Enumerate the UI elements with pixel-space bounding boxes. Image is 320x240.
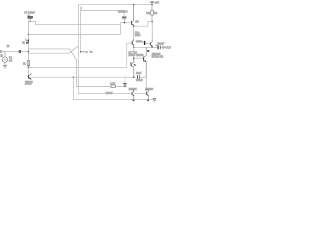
node v3 top xyxy=(73,77,74,78)
left rail xyxy=(27,21,29,74)
bottom rail corner x=78.3 to base rail y=93.7 xyxy=(78,93,131,95)
svg-text:R5: R5 xyxy=(135,20,139,23)
svg-text:1k: 1k xyxy=(23,63,26,65)
svg-text:2N3904: 2N3904 xyxy=(118,9,128,13)
svg-text:10uF: 10uF xyxy=(136,72,142,75)
node dot at C2 bottom xyxy=(124,22,126,24)
svg-text:+9V: +9V xyxy=(154,0,159,4)
capacitor C4 output xyxy=(155,42,164,49)
transistor Q8 mirror left xyxy=(129,89,138,101)
svg-text:C: C xyxy=(86,50,88,54)
wire to Q6 base xyxy=(134,57,144,59)
bus 1 vertical x=78.3 xyxy=(77,5,79,94)
resistor R2 on left rail xyxy=(23,61,30,66)
svg-text:1k: 1k xyxy=(22,42,25,44)
wire down to Q7 xyxy=(151,21,153,41)
supply +9V xyxy=(150,0,159,4)
wire mirror base rail continue xyxy=(134,93,147,95)
wire long top line y=24.6 xyxy=(35,24,120,26)
wire line y=67.3 xyxy=(28,66,126,68)
node C label xyxy=(80,50,93,54)
node line y67.3 xyxy=(28,67,30,69)
transistor Q3 NPN 2N3904 right top xyxy=(118,5,134,27)
wire mid line y=34.5 xyxy=(28,34,120,36)
svg-text:IN: IN xyxy=(7,44,10,48)
bus 2 top rail xyxy=(81,7,125,16)
diode D1 bar xyxy=(136,41,150,45)
ground rail corner v3 xyxy=(73,77,154,99)
transistor Q4 driver xyxy=(131,39,134,47)
terminal OUT xyxy=(163,46,172,50)
node on top rail xyxy=(133,4,134,5)
resistor R6 xyxy=(146,5,158,22)
transistor Q6 PNP output lower xyxy=(136,47,149,77)
svg-text:OUT: OUT xyxy=(165,46,171,50)
node A xyxy=(28,34,29,35)
wire cap to right chain xyxy=(140,76,147,78)
capacitor C2 right xyxy=(122,17,127,23)
wire output line y=47.3 to right xyxy=(134,46,152,48)
capacitor C5 series y77.2 xyxy=(136,72,143,82)
transistor Q9 mirror right xyxy=(145,77,154,101)
node on line y77.2 xyxy=(133,76,135,78)
wire upper cross line y=48.9 xyxy=(28,48,69,50)
node output xyxy=(151,47,153,49)
svg-text:2N390: 2N390 xyxy=(136,54,144,57)
wire line y=77.2 xyxy=(31,76,134,78)
wire crossing diagonals xyxy=(69,46,78,60)
wire lower cross line y=53.8 xyxy=(28,52,69,54)
svg-text:R6: R6 xyxy=(154,11,158,15)
resistor R8 horizontal xyxy=(110,82,116,88)
wire cap to node line xyxy=(28,21,35,24)
transistor Q2 bottom-left xyxy=(25,73,33,86)
ground under source xyxy=(3,62,7,68)
capacitor C6 xyxy=(123,77,126,86)
wire riser x=120.5 xyxy=(120,23,122,35)
node emitter chain xyxy=(133,25,135,27)
wire chain down to Q4 xyxy=(133,26,135,40)
transistor Q5 NPN lower driver xyxy=(131,58,136,77)
node output of driver xyxy=(133,47,135,49)
node bias xyxy=(133,57,135,59)
wire output line y=47.3 right xyxy=(152,46,162,48)
bus 1 top rail y=4.6 xyxy=(78,4,152,6)
svg-text:100uF: 100uF xyxy=(157,42,165,45)
svg-text:100uF: 100uF xyxy=(128,54,136,57)
bus 2 vertical x=80.7 xyxy=(80,7,82,52)
transistor Q7 NPN output upper xyxy=(150,39,152,47)
capacitor C1 series input xyxy=(19,50,20,53)
svg-text:BD139 8R: BD139 8R xyxy=(152,56,164,59)
node input-rail xyxy=(28,51,30,53)
input terminal IN xyxy=(1,44,10,53)
node dot on y86.5 xyxy=(124,86,125,87)
wire line y=86.5 xyxy=(77,86,127,88)
node cap lead xyxy=(29,21,30,22)
AC source V1 xyxy=(0,52,12,63)
descender vertical x=76.5 xyxy=(76,60,78,87)
transistor Q1 left xyxy=(22,39,28,45)
svg-text:5m: 5m xyxy=(90,52,93,54)
svg-text:BC547: BC547 xyxy=(25,84,32,86)
svg-text:470uF: 470uF xyxy=(105,91,113,95)
svg-text:AC: AC xyxy=(9,59,13,62)
wire link to R6 chain xyxy=(134,21,153,26)
svg-text:10uF: 10uF xyxy=(135,34,141,37)
svg-text:10k: 10k xyxy=(146,11,151,15)
svg-text:100uF: 100uF xyxy=(136,79,143,82)
node supply on rail xyxy=(151,4,153,6)
ground bottom right xyxy=(153,99,156,102)
wire chain down xyxy=(133,47,135,62)
wire input line xyxy=(3,51,29,53)
capacitor C7 top-left xyxy=(24,12,35,22)
wire base line y=22.6 xyxy=(121,22,132,24)
corner line y67.3 up to Q3 base xyxy=(127,43,131,67)
svg-text:C7 100uF: C7 100uF xyxy=(24,12,35,15)
